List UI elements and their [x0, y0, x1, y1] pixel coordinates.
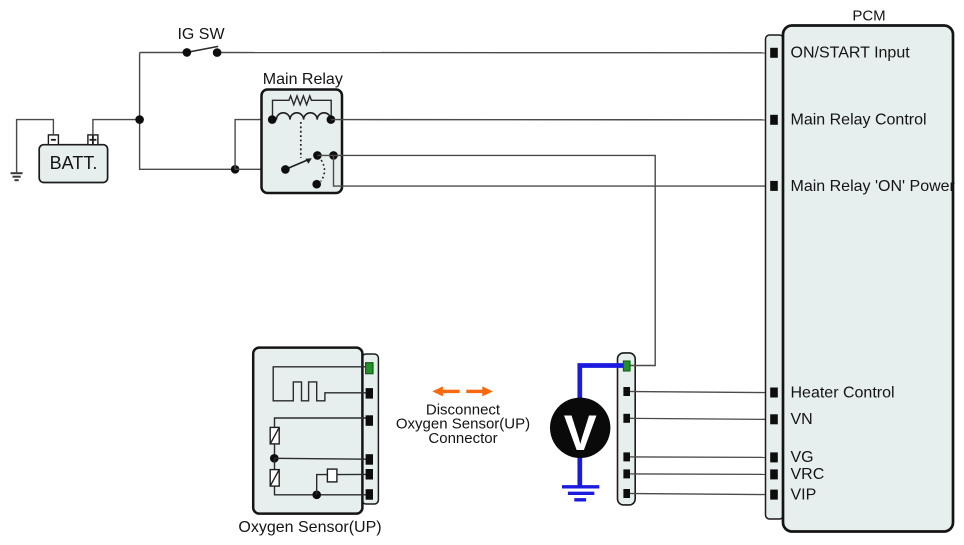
- inductor relay coil: [276, 113, 330, 120]
- node relay switch common: [281, 165, 290, 174]
- pin sensor 4: [366, 454, 373, 465]
- wire IG SW line (left segment): [140, 52, 187, 54]
- relay box Main Relay: [262, 90, 343, 194]
- pin harness VIP: [623, 489, 630, 498]
- pin PCM ON/START Input: [770, 48, 778, 58]
- svg-text:Heater Control: Heater Control: [791, 384, 895, 401]
- pin PCM VG: [770, 452, 778, 462]
- svg-text:Oxygen Sensor(UP): Oxygen Sensor(UP): [238, 519, 381, 536]
- node battery junction: [135, 115, 144, 124]
- svg-text:Main Relay Control: Main Relay Control: [791, 112, 927, 129]
- pin PCM Main Relay Control: [770, 115, 778, 125]
- battery positive terminal: [88, 135, 98, 145]
- pin harness green: [623, 361, 630, 371]
- node sensor junction B: [312, 490, 321, 499]
- node sensor junction A: [270, 454, 279, 463]
- svg-text:VIP: VIP: [791, 486, 817, 503]
- wire R2 bottom to pin 6: [275, 486, 367, 495]
- pin sensor 6: [366, 489, 373, 500]
- dotted arc NO to NC: [321, 160, 325, 181]
- ground (battery): [11, 173, 23, 180]
- arrow disconnect left: [432, 386, 459, 396]
- svg-text:ON/START Input: ON/START Input: [791, 44, 911, 61]
- wire voltmeter positive (blue): [580, 366, 626, 400]
- PCM box: [783, 26, 953, 532]
- wire harness to Heater Control: [630, 392, 771, 393]
- wire junction up to relay coil: [235, 120, 272, 170]
- pin PCM VIP: [770, 490, 778, 500]
- wire sensing cell to pin 5: [337, 473, 366, 475]
- ground (voltmeter, blue): [562, 487, 599, 500]
- wire relay output to harness connector (down at x=655): [317, 155, 655, 365]
- pin PCM Main Relay ON Power: [770, 181, 778, 191]
- voltmeter V: [550, 398, 610, 461]
- node relay output: [329, 151, 338, 160]
- svg-text:VN: VN: [791, 411, 813, 428]
- wire voltmeter negative to ground (blue): [577, 457, 582, 486]
- label Disconnect Oxygen Sensor(UP) Connector: [396, 401, 530, 447]
- wire junction B up to sensing cell: [317, 475, 328, 495]
- switch relay contact blade: [285, 158, 311, 169]
- wire junction A to pin 4: [274, 457, 366, 460]
- pin sensor 3: [366, 415, 373, 426]
- wire IG SW to PCM ON/START Input: [217, 52, 771, 54]
- waveform signal trace: [273, 367, 366, 401]
- pin harness VG: [623, 452, 630, 461]
- svg-text:Connector: Connector: [428, 430, 497, 447]
- wire vertical from IG SW line down to battery junction and lower corner: [140, 53, 236, 170]
- node relay NO contact: [313, 151, 322, 160]
- wire harness to VN: [630, 418, 771, 419]
- wire harness to VG: [630, 456, 771, 459]
- pin harness VRC: [623, 469, 630, 478]
- svg-text:VG: VG: [791, 449, 814, 466]
- wire relay output to PCM Main Relay ON Power: [334, 155, 772, 186]
- resistor heater R2: [270, 458, 279, 486]
- dotted actuator link: [300, 122, 302, 158]
- pin PCM Heater Control: [770, 388, 778, 398]
- wire junction to relay switch common: [235, 168, 285, 170]
- sensing cell (small box): [327, 469, 337, 482]
- wire R1 to junction: [274, 444, 276, 458]
- oxygen sensor box: [253, 348, 362, 514]
- battery negative terminal: [48, 135, 58, 145]
- svg-text:Main Relay: Main Relay: [263, 71, 343, 88]
- wire heater top: [275, 418, 367, 427]
- wire relay coil to PCM Main Relay Control: [331, 119, 771, 121]
- wire harness to VIP: [630, 494, 771, 495]
- wire battery positive to junction: [93, 120, 140, 135]
- svg-text:V: V: [564, 405, 598, 461]
- svg-text:PCM: PCM: [852, 7, 885, 24]
- pin PCM VN: [770, 414, 778, 424]
- pin harness heater: [623, 387, 630, 396]
- pin harness VN: [623, 414, 630, 423]
- pin PCM VRC: [770, 469, 778, 479]
- pin sensor 2: [366, 388, 373, 399]
- pin sensor 5: [366, 469, 373, 480]
- svg-text:BATT.: BATT.: [50, 153, 98, 173]
- arrow disconnect right: [466, 386, 493, 396]
- svg-text:IG SW: IG SW: [177, 26, 225, 43]
- wire harness to VRC: [630, 473, 771, 476]
- node relay NC contact: [312, 180, 321, 189]
- node relay coil right: [327, 115, 336, 124]
- resistor (relay coil suppression): [273, 96, 332, 120]
- node relay coil left: [268, 115, 277, 124]
- oxygen sensor connector strip: [362, 354, 378, 504]
- pin sensor green: [366, 363, 373, 374]
- wire battery negative to ground: [17, 120, 54, 173]
- svg-text:Main Relay 'ON' Power: Main Relay 'ON' Power: [791, 178, 956, 195]
- node lower junction: [231, 165, 240, 174]
- PCM connector strip: [766, 35, 784, 519]
- svg-text:VRC: VRC: [791, 466, 825, 483]
- harness connector: [618, 353, 636, 505]
- switch IG SW: [183, 46, 222, 57]
- resistor heater R1: [270, 427, 279, 444]
- battery BATT.: [39, 145, 107, 183]
